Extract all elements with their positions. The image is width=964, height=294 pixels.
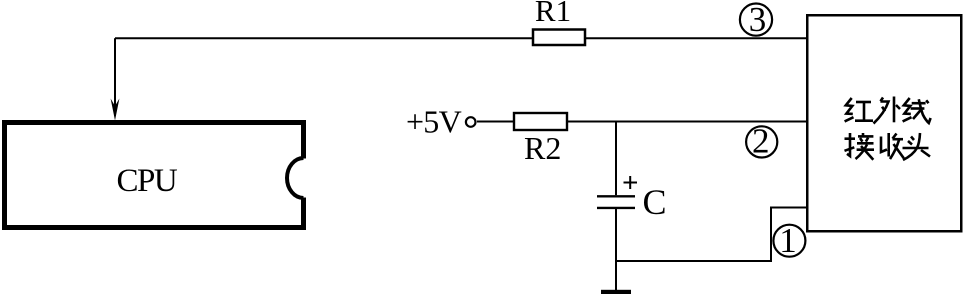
svg-text:C: C — [643, 182, 667, 222]
svg-text:R1: R1 — [535, 0, 571, 28]
svg-text:+5V: +5V — [406, 104, 462, 140]
svg-text:1: 1 — [779, 221, 797, 260]
svg-text:CPU: CPU — [117, 163, 178, 199]
svg-text:2: 2 — [752, 122, 770, 161]
svg-text:3: 3 — [749, 0, 767, 39]
svg-text:R2: R2 — [524, 130, 561, 166]
